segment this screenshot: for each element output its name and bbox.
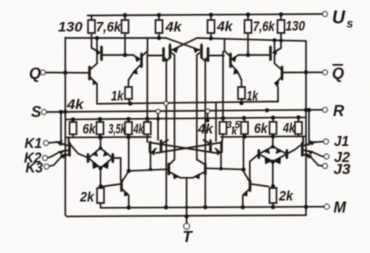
transistor Q11 latch-left base bars <box>149 142 152 152</box>
arrowhead Q11 emitter <box>150 150 155 156</box>
transistor Q18 diamond-right base bars <box>257 150 260 157</box>
transistor J multi-emitter input <box>302 136 315 157</box>
terminal Qbar <box>323 70 328 75</box>
wire right collector line y38 <box>197 38 306 41</box>
transistor emitter-follower right <box>275 40 283 101</box>
wire Q output line <box>46 72 89 74</box>
resistor 4k left-mid <box>156 15 163 38</box>
terminal Q <box>41 70 46 75</box>
arrowheads Q16 emitters K1 K2 K3 <box>57 140 63 145</box>
wire right resistor bottom rail <box>221 135 306 138</box>
wire S-R line <box>47 110 322 112</box>
junction dots diamonds <box>98 166 102 170</box>
svg-text:7,6k: 7,6k <box>253 18 275 34</box>
wire supply rail Us <box>88 14 323 16</box>
wire left outer vertical <box>64 38 66 212</box>
transistor Q19 J-input base bar <box>301 143 304 155</box>
svg-text:1k: 1k <box>247 87 259 103</box>
arrowhead cross-coupling into Q7 <box>193 47 199 53</box>
arrowhead Q9 emitter <box>233 69 238 75</box>
wire internal line1 <box>97 102 278 104</box>
transistor K multi-emitter input <box>57 137 70 157</box>
transistor diamond right <box>250 137 302 189</box>
transistor Q6 inner-right-A base bar <box>207 49 210 61</box>
resistor 130 left <box>88 16 95 49</box>
svg-text:J3: J3 <box>334 161 352 178</box>
resistor 4k right-mid <box>208 15 215 38</box>
svg-text:2k: 2k <box>79 188 95 204</box>
ring junction S-R line right <box>206 109 210 113</box>
wire left collector line y38 <box>65 37 166 39</box>
transistor Q17 diamond-left base bars <box>87 154 90 161</box>
svg-text:K3: K3 <box>26 160 44 177</box>
ring junction S-R line left <box>156 109 160 113</box>
svg-text:4k: 4k <box>282 120 296 136</box>
arrowhead Q1 emitter <box>96 49 102 55</box>
svg-text:Q: Q <box>332 66 344 83</box>
transistor Q15 bottom-right base bar <box>249 181 252 191</box>
arrowhead cross-coupling into Q5 <box>172 47 178 53</box>
svg-text:T: T <box>183 229 194 246</box>
wire K3 lead <box>49 157 61 166</box>
svg-text:M: M <box>334 200 348 217</box>
wire ground rail M <box>101 207 324 208</box>
resistor 1k left <box>125 80 132 104</box>
terminal Us <box>323 12 328 17</box>
wire lower common rail <box>65 211 306 216</box>
resistor 6k row2 R3 <box>270 118 277 137</box>
svg-text:S: S <box>31 104 42 121</box>
junction dots ground rail <box>127 206 131 210</box>
transistor latch-left <box>150 111 168 169</box>
junction dot Qbar <box>304 70 308 74</box>
transistor output-upper left <box>92 47 133 61</box>
transistor inner-left pair <box>148 44 175 207</box>
resistor 1k right <box>238 80 245 103</box>
ring junction line1 <box>164 101 168 105</box>
svg-text:U: U <box>332 8 346 28</box>
wire K1 lead <box>49 141 57 144</box>
transistor Q3 emitter-follower-left base bar <box>88 67 91 79</box>
arrowhead Q4 emitter <box>164 57 167 61</box>
transistor Q4 inner-left-A base bar <box>162 49 165 61</box>
svg-text:4k: 4k <box>197 120 214 136</box>
junction dot 1k bottoms <box>128 102 132 106</box>
svg-text:k: k <box>232 127 238 138</box>
transistor clock pair <box>169 164 206 224</box>
svg-text:Q: Q <box>29 66 41 83</box>
arrowhead Q8 emitter <box>272 49 278 55</box>
svg-text:6k: 6k <box>254 120 269 136</box>
arrowhead Q2 base lead <box>135 56 141 62</box>
junction dots top rail <box>123 13 127 17</box>
transistor Q2 phase-splitter-left base bar <box>140 54 143 67</box>
svg-text:R: R <box>333 103 345 120</box>
terminal K1 <box>44 141 49 146</box>
svg-text:6k: 6k <box>83 121 97 137</box>
wire lower cross-coupling X <box>150 143 222 154</box>
resistor 4k row2 R4 <box>295 117 302 136</box>
arrowheads Q18 diamond-right emitters <box>274 156 281 164</box>
arrowhead Q13 right emitter <box>194 173 200 179</box>
arrowhead Q2 emitter <box>133 69 138 75</box>
transistor output-upper right <box>239 47 282 61</box>
resistor 4k row2 L4 <box>144 52 151 143</box>
arrowhead Q12 emitter <box>216 150 221 156</box>
transistor emitter-follower left <box>90 38 98 104</box>
wire middle resistor top rail <box>65 117 306 119</box>
arrowhead Q3 emitter <box>93 79 98 85</box>
terminal K2 <box>43 156 48 161</box>
terminal K3 <box>44 164 49 169</box>
arrowhead Q13 left emitter <box>173 173 179 179</box>
resistor 4k row2 L1 <box>70 120 77 138</box>
svg-text:3,5k: 3,5k <box>109 121 127 137</box>
junction dots y55 <box>123 53 127 57</box>
resistor 130 right <box>278 14 285 48</box>
terminal S <box>42 110 47 115</box>
junction dots resistor rails <box>71 117 75 121</box>
resistor 3.5k row2 R2 <box>241 118 248 171</box>
wire R input drop <box>308 110 310 145</box>
transistor bottom left <box>103 171 129 208</box>
transistor bottom right <box>243 171 269 207</box>
wire J2 lead <box>313 152 325 156</box>
arrowhead Q9 base lead <box>231 56 237 62</box>
transistor Q9 phase-splitter-right base bar <box>229 54 232 67</box>
terminal T <box>184 223 190 229</box>
junction dots clock bases <box>127 169 131 173</box>
resistor 1.6k right <box>245 15 252 56</box>
transistor Q1 output-upper-left base bar <box>100 47 103 60</box>
transistor Q14 bottom-left base bar <box>120 181 123 191</box>
transistor diamond left <box>70 137 121 188</box>
wire right outer vertical <box>305 41 307 215</box>
svg-text:1k: 1k <box>111 87 124 103</box>
svg-text:130: 130 <box>58 19 83 35</box>
svg-text:4k: 4k <box>164 18 182 34</box>
transistor latch-right <box>204 102 222 168</box>
junction dots S-R line <box>59 110 63 114</box>
wire cross-coupling X upper <box>166 38 200 50</box>
transistor inner-right pair <box>197 44 224 207</box>
wire Qbar output line <box>282 71 322 73</box>
resistor 4k row2 R1 <box>220 52 227 143</box>
transistor Q13 clock-pair base bars <box>168 164 171 174</box>
svg-text:4k: 4k <box>133 121 144 137</box>
transistor Q8 output-upper-right base bar <box>269 47 272 60</box>
svg-text:2k: 2k <box>278 187 294 203</box>
terminal J2 <box>324 154 329 159</box>
resistor 6k row2 L2 <box>97 119 104 137</box>
transistor phase-splitter right <box>225 39 242 80</box>
transistor Q12 latch-right base bars <box>220 142 223 152</box>
wire K2 lead <box>48 152 60 157</box>
arrowhead Q10 emitter <box>274 79 279 85</box>
wire clock-left base link <box>129 169 169 171</box>
svg-text:4k: 4k <box>66 96 85 112</box>
arrowheads Q19 emitters J1 J2 J3 <box>309 140 315 145</box>
svg-text:J1: J1 <box>334 133 349 150</box>
arrowhead Q14 emitter <box>124 191 129 197</box>
resistor 3.5k row2 L3 <box>125 119 132 171</box>
junction dots y38 line <box>157 36 161 40</box>
terminal R <box>323 107 328 112</box>
wire J1 lead <box>315 141 323 144</box>
resistor 1.6k left <box>122 15 129 55</box>
arrowheads Q17 diamond-left emitters <box>102 161 109 169</box>
wire J3 lead <box>311 157 323 166</box>
wire left resistor bottom rail <box>65 136 151 138</box>
junction dot Q <box>63 71 67 75</box>
wire S input drop <box>60 112 62 145</box>
svg-text:130: 130 <box>286 18 306 34</box>
resistor 2k right <box>270 188 277 207</box>
arrowhead Q6 emitter <box>204 57 207 61</box>
svg-text:s: s <box>347 17 354 31</box>
transistor Q5 inner-left-B base bar <box>169 46 172 58</box>
terminal J3 <box>323 164 328 169</box>
transistor Q7 inner-right-B base bar <box>200 46 203 58</box>
wire clock-right base link <box>206 168 243 169</box>
transistor Q10 emitter-follower-right base bar <box>281 67 284 79</box>
arrowhead Q15 emitter <box>242 191 247 197</box>
terminal M <box>324 204 329 209</box>
svg-text:7,6k: 7,6k <box>96 19 122 35</box>
transistor phase-splitter left <box>129 38 148 80</box>
terminal J1 <box>324 139 329 144</box>
transistor Q16 K-input base bar <box>68 143 71 155</box>
resistor 2k left <box>97 188 104 208</box>
svg-text:4k: 4k <box>216 18 234 34</box>
